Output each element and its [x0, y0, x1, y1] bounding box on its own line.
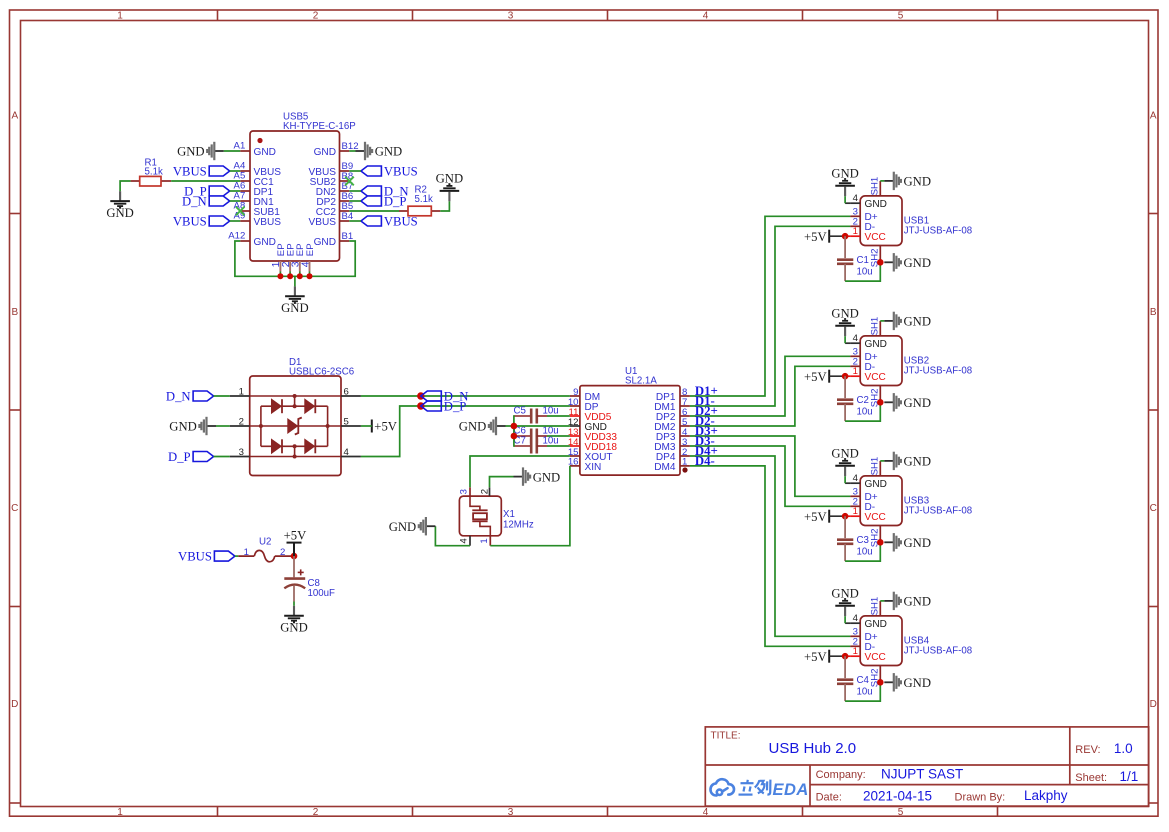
wire net D4- — [690, 466, 851, 646]
svg-text:D: D — [1150, 699, 1157, 710]
svg-text:EP: EP — [305, 243, 316, 256]
svg-text:USBLC6-2SC6: USBLC6-2SC6 — [289, 366, 354, 377]
gnd flag at SH1 USB3 — [884, 460, 894, 462]
svg-text:SH1: SH1 — [870, 317, 881, 336]
gnd flag at SH2 USB2 — [884, 401, 894, 403]
svg-text:GND: GND — [865, 199, 887, 210]
svg-text:GND: GND — [865, 479, 887, 490]
wire cap gnd bus vertical — [513, 415, 515, 447]
svg-text:EDA: EDA — [773, 781, 809, 799]
svg-text:XIN: XIN — [585, 462, 602, 473]
svg-text:1: 1 — [853, 226, 858, 237]
capacitor C4 10u — [844, 656, 846, 678]
port D_P at pin A6 — [209, 186, 230, 196]
wire SH1 to gnd USB2 — [880, 320, 884, 322]
svg-text:VBUS: VBUS — [309, 217, 337, 228]
junction VCC node USB4 — [842, 653, 849, 660]
svg-text:Date:: Date: — [816, 792, 842, 804]
wire B4 — [349, 220, 361, 222]
svg-text:3: 3 — [239, 447, 244, 458]
svg-text:1.0: 1.0 — [1114, 741, 1133, 756]
svg-text:12MHz: 12MHz — [503, 520, 534, 531]
svg-text:D_P: D_P — [168, 450, 191, 464]
capacitor C6 10u — [514, 435, 531, 437]
svg-text:4: 4 — [459, 538, 470, 544]
gnd flag at SH2 USB3 — [884, 541, 894, 543]
svg-text:+5V: +5V — [804, 230, 827, 244]
no-connect X at pin A8 — [236, 207, 245, 216]
svg-text:+5V: +5V — [374, 420, 397, 434]
capacitor C2 10u — [844, 376, 846, 398]
capacitor C3 10u — [844, 516, 846, 538]
svg-text:4: 4 — [300, 261, 311, 267]
LCEDA logo — [711, 779, 735, 795]
wire net D2+ — [690, 356, 851, 416]
wire A12/B1 to EP gnd bus — [235, 241, 355, 276]
svg-text:D: D — [11, 699, 18, 710]
svg-text:GND: GND — [831, 307, 859, 321]
gnd flag at pin A1 — [214, 150, 224, 152]
svg-text:5: 5 — [898, 807, 904, 818]
svg-text:1: 1 — [117, 807, 123, 818]
wire net D3+ — [690, 436, 851, 496]
junction cap bus at gnd — [511, 423, 518, 430]
junction VCC node USB1 — [842, 233, 849, 240]
wire +5V to VCC USB1 — [829, 235, 845, 237]
wire +5V to VCC USB4 — [829, 655, 845, 657]
wire R1 to CC1 pin A5 — [171, 180, 240, 182]
svg-text:GND: GND — [831, 447, 859, 461]
svg-text:GND: GND — [904, 315, 932, 329]
port D_P at pin B6 — [361, 196, 382, 206]
junction D_N — [417, 392, 424, 399]
port D_P at D1 pin 3 — [193, 452, 214, 462]
svg-text:C: C — [1150, 503, 1157, 514]
wire pin4 to gnd USB1 — [845, 202, 850, 204]
junction SH2 USB2 — [877, 399, 884, 406]
svg-text:GND: GND — [533, 470, 561, 484]
net label flag D_P — [421, 401, 442, 411]
port VBUS at U2 pin 1 — [214, 551, 235, 561]
power flag +5V at USB4 — [828, 650, 830, 663]
svg-text:10u: 10u — [857, 267, 873, 278]
wire C6 to VDD33 pin 13 — [547, 435, 570, 437]
gnd flag at SH1 USB1 — [884, 180, 894, 182]
svg-text:GND: GND — [254, 147, 276, 158]
port VBUS at pin B9 — [361, 166, 382, 176]
svg-text:GND: GND — [904, 676, 932, 690]
svg-text:D_P: D_P — [444, 399, 467, 413]
wire XOUT to crystal pin 3 — [470, 456, 570, 487]
svg-text:Company:: Company: — [816, 769, 866, 781]
svg-text:GND: GND — [280, 621, 308, 635]
svg-text:GND: GND — [865, 339, 887, 350]
no-connect X at pin B8 — [345, 177, 354, 186]
gnd flag at SH1 USB4 — [884, 600, 894, 602]
wire pin4 to gnd USB2 — [845, 342, 850, 344]
svg-text:D_N: D_N — [182, 194, 207, 208]
svg-text:JTJ-USB-AF-08: JTJ-USB-AF-08 — [904, 645, 972, 656]
ground earth below USB5 — [294, 286, 296, 295]
junction D_P — [417, 402, 424, 409]
junction +5V node — [291, 553, 298, 560]
wire C5 to VDD5 pin 11 — [547, 415, 570, 417]
port D_N at pin B7 — [361, 186, 382, 196]
svg-text:1: 1 — [682, 457, 687, 468]
power flag +5V above U2 — [293, 543, 295, 557]
svg-text:KH-TYPE-C-16P: KH-TYPE-C-16P — [283, 121, 356, 132]
svg-text:TITLE:: TITLE: — [711, 730, 741, 741]
power flag +5V at USB2 — [828, 370, 830, 383]
svg-text:C5: C5 — [514, 406, 526, 417]
svg-text:VBUS: VBUS — [173, 164, 207, 178]
svg-text:1/1: 1/1 — [1120, 769, 1139, 784]
svg-text:3: 3 — [508, 807, 514, 818]
svg-text:GND: GND — [436, 172, 464, 186]
svg-text:U2: U2 — [259, 536, 271, 547]
power flag +5V at USB3 — [828, 510, 830, 523]
svg-text:Drawn By:: Drawn By: — [955, 792, 1006, 804]
svg-text:A: A — [1150, 111, 1157, 122]
wire cap bottom to SH2 USB4 — [845, 682, 880, 701]
wire cap bottom to SH2 USB3 — [845, 542, 880, 561]
wire D1 pin5 to +5V — [361, 425, 372, 427]
svg-text:D_N: D_N — [166, 389, 191, 403]
wire VBUS to U2 — [235, 555, 238, 557]
svg-text:GND: GND — [904, 256, 932, 270]
junction EP3 — [297, 273, 303, 279]
svg-text:1: 1 — [117, 11, 123, 22]
+5V flag at D1 pin 5 — [371, 420, 373, 433]
svg-text:C1: C1 — [857, 255, 869, 266]
wire B12 — [349, 150, 355, 152]
wire B6 — [349, 200, 361, 202]
svg-text:C: C — [11, 503, 18, 514]
svg-text:VBUS: VBUS — [254, 217, 282, 228]
svg-text:3: 3 — [459, 489, 470, 494]
svg-text:2: 2 — [313, 807, 319, 818]
svg-text:2: 2 — [239, 417, 244, 428]
svg-text:10u: 10u — [857, 407, 873, 418]
wire D1 pin6 to U1 DM (net D_N) — [361, 395, 570, 397]
port VBUS at pin A4 — [209, 166, 230, 176]
svg-text:GND: GND — [106, 206, 134, 220]
svg-text:4: 4 — [703, 11, 709, 22]
wire A6 — [230, 190, 241, 192]
svg-text:D_P: D_P — [384, 194, 407, 208]
wire CC2 B5 to R2 — [349, 210, 399, 212]
wire SH1 to gnd USB3 — [880, 460, 884, 462]
junction cap bus at C6 — [511, 433, 518, 440]
wire B9 — [349, 170, 361, 172]
ground earth above USB2 — [844, 327, 846, 337]
svg-text:1: 1 — [853, 506, 858, 517]
port D_N at pin A7 — [209, 196, 230, 206]
wire R1 left to GND — [120, 181, 131, 191]
svg-text:REV:: REV: — [1075, 744, 1100, 756]
gnd flag at SH1 USB2 — [884, 320, 894, 322]
junction VCC node USB2 — [842, 373, 849, 380]
connector USB5 KH-TYPE-C-16P — [250, 131, 340, 261]
junction EP4 — [307, 273, 313, 279]
wire SH1 to gnd USB4 — [880, 600, 884, 602]
svg-text:GND: GND — [904, 175, 932, 189]
wire cap bottom to SH2 USB2 — [845, 402, 880, 421]
svg-text:5: 5 — [898, 11, 904, 22]
svg-text:4: 4 — [853, 193, 859, 204]
wire pin4 to gnd USB3 — [845, 482, 850, 484]
svg-text:+5V: +5V — [804, 650, 827, 664]
gnd flag at SH2 USB1 — [884, 261, 894, 263]
svg-text:1: 1 — [479, 538, 490, 543]
svg-text:SH1: SH1 — [870, 597, 881, 616]
svg-text:A1: A1 — [234, 141, 246, 152]
ground earth above USB4 — [844, 607, 846, 617]
svg-text:1: 1 — [239, 387, 244, 398]
svg-text:GND: GND — [831, 167, 859, 181]
svg-text:GND: GND — [389, 520, 417, 534]
wire D1 pin4 to U1 DP (net D_P) — [361, 406, 570, 457]
svg-text:NJUPT SAST: NJUPT SAST — [881, 766, 963, 781]
svg-text:2021-04-15: 2021-04-15 — [863, 788, 932, 803]
svg-text:10u: 10u — [543, 436, 559, 447]
svg-text:GND: GND — [281, 301, 309, 315]
junction EP2 — [287, 273, 293, 279]
svg-text:GND: GND — [314, 147, 336, 158]
svg-text:4: 4 — [853, 473, 859, 484]
wire C8 to gnd — [293, 602, 295, 606]
svg-text:100uF: 100uF — [308, 588, 336, 599]
gnd flag at D1 pin 2 — [207, 425, 217, 427]
svg-text:10u: 10u — [857, 547, 873, 558]
capacitor C8 100uF — [293, 556, 295, 577]
wire net D3- — [690, 446, 851, 506]
usb connector USB3 JTJ-USB-AF-08 — [860, 476, 902, 526]
svg-text:1: 1 — [853, 366, 858, 377]
svg-text:C2: C2 — [857, 395, 869, 406]
wire A7 — [230, 200, 241, 202]
wire D1 pin3 — [214, 456, 230, 458]
wire net D4+ — [690, 456, 851, 636]
svg-text:5.1k: 5.1k — [415, 194, 433, 205]
port VBUS at pin B4 — [361, 216, 382, 226]
svg-text:GND: GND — [375, 145, 403, 159]
wire gnd to pin 12 — [506, 425, 570, 427]
junction SH2 USB3 — [877, 539, 884, 546]
svg-text:GND: GND — [459, 420, 487, 434]
capacitor C1 10u — [844, 236, 846, 258]
wire R2 to GND — [440, 201, 449, 211]
svg-text:GND: GND — [904, 396, 932, 410]
svg-text:VCC: VCC — [865, 652, 886, 663]
port VBUS at pin A9 — [209, 216, 230, 226]
diode array D1 USBLC6-2SC6 — [250, 376, 341, 476]
svg-text:GND: GND — [904, 595, 932, 609]
svg-text:4: 4 — [853, 613, 859, 624]
wire +5V to VCC USB2 — [829, 375, 845, 377]
gnd flag at pin B12 — [356, 150, 366, 152]
svg-text:A: A — [11, 111, 18, 122]
usb connector USB4 JTJ-USB-AF-08 — [860, 616, 902, 666]
svg-text:5: 5 — [344, 417, 349, 428]
wire D1 pin1 — [214, 395, 230, 397]
svg-text:VCC: VCC — [865, 512, 886, 523]
svg-text:+5V: +5V — [804, 510, 827, 524]
svg-text:SL2.1A: SL2.1A — [625, 375, 657, 386]
svg-text:3: 3 — [508, 11, 514, 22]
junction SH2 USB4 — [877, 679, 884, 686]
wire crystal pin 4 to gnd — [435, 526, 470, 546]
capacitor C7 10u — [514, 445, 531, 447]
svg-text:GND: GND — [904, 455, 932, 469]
ground earth above USB1 — [844, 187, 846, 197]
svg-text:B: B — [1150, 307, 1157, 318]
ground earth at R1 — [119, 191, 121, 200]
svg-text:1: 1 — [853, 646, 858, 657]
svg-text:SH1: SH1 — [870, 177, 881, 196]
hub controller U1 SL2.1A — [580, 386, 680, 476]
wire C7 to VDD18 pin 14 — [547, 445, 570, 447]
svg-text:SH1: SH1 — [870, 457, 881, 476]
wire A1 — [224, 150, 240, 152]
gnd flag at SH2 USB4 — [884, 681, 894, 683]
wire +5V to VCC USB3 — [829, 515, 845, 517]
svg-text:4: 4 — [703, 807, 709, 818]
wire crystal pin 1 to XIN — [490, 466, 570, 546]
gnd flag right of crystal — [514, 476, 524, 478]
gnd flag left of crystal — [426, 525, 436, 527]
svg-text:VCC: VCC — [865, 232, 886, 243]
wire A9 — [230, 220, 241, 222]
svg-text:GND: GND — [831, 587, 859, 601]
svg-text:6: 6 — [344, 387, 349, 398]
svg-text:GND: GND — [177, 145, 205, 159]
ground earth at R2 — [448, 192, 450, 202]
wire EP bus to gnd — [294, 276, 296, 286]
wire net D1- — [690, 226, 851, 406]
svg-text:C4: C4 — [857, 675, 870, 686]
svg-text:Sheet:: Sheet: — [1075, 772, 1107, 784]
svg-text:VBUS: VBUS — [173, 214, 207, 228]
wire crystal pin 2 to gnd — [490, 477, 514, 488]
svg-text:4: 4 — [344, 447, 350, 458]
svg-text:USB Hub 2.0: USB Hub 2.0 — [769, 740, 857, 757]
svg-text:+5V: +5V — [804, 370, 827, 384]
svg-text:C3: C3 — [857, 535, 869, 546]
port D_N at D1 pin 1 — [193, 391, 214, 401]
svg-text:+5V: +5V — [284, 529, 307, 543]
svg-text:2: 2 — [313, 11, 319, 22]
title block — [705, 727, 1148, 806]
wire A4 — [230, 170, 241, 172]
svg-text:D4-: D4- — [695, 454, 715, 468]
svg-text:GND: GND — [314, 237, 336, 248]
wire SH1 to gnd USB1 — [880, 180, 884, 182]
ground earth below C8 — [293, 606, 295, 615]
svg-text:GND: GND — [904, 536, 932, 550]
wire pin4 to gnd USB4 — [845, 622, 850, 624]
wire net D2- — [690, 366, 851, 426]
svg-text:GND: GND — [254, 237, 276, 248]
svg-text:JTJ-USB-AF-08: JTJ-USB-AF-08 — [904, 365, 972, 376]
net label flag D_N — [421, 391, 442, 401]
wire D1 pin2 — [216, 425, 230, 427]
svg-text:X1: X1 — [503, 509, 515, 520]
usb connector USB2 JTJ-USB-AF-08 — [860, 336, 902, 386]
wire B7 — [349, 190, 361, 192]
gnd flag at U1 pin 12 — [496, 425, 506, 427]
crystal X1 12MHz — [459, 496, 501, 536]
svg-text:GND: GND — [169, 420, 197, 434]
svg-text:GND: GND — [865, 619, 887, 630]
svg-text:VBUS: VBUS — [178, 550, 212, 564]
svg-text:2: 2 — [479, 489, 490, 494]
power flag +5V at USB1 — [828, 230, 830, 243]
svg-text:DM4: DM4 — [654, 462, 676, 473]
junction SH2 USB1 — [877, 259, 884, 266]
ground earth above USB3 — [844, 467, 846, 477]
svg-text:VCC: VCC — [865, 372, 886, 383]
capacitor C5 10u — [514, 415, 531, 417]
svg-text:10u: 10u — [857, 687, 873, 698]
svg-text:VBUS: VBUS — [384, 164, 418, 178]
svg-text:A12: A12 — [228, 231, 245, 242]
wire net D1+ — [690, 216, 851, 396]
wire cap bottom to SH2 USB1 — [845, 262, 880, 281]
svg-text:4: 4 — [853, 333, 859, 344]
svg-text:Lakphy: Lakphy — [1024, 788, 1068, 803]
svg-text:JTJ-USB-AF-08: JTJ-USB-AF-08 — [904, 505, 972, 516]
svg-text:10u: 10u — [543, 406, 559, 417]
junction EP1 — [277, 273, 283, 279]
svg-text:JTJ-USB-AF-08: JTJ-USB-AF-08 — [904, 225, 972, 236]
svg-text:B: B — [11, 307, 18, 318]
usb connector USB1 JTJ-USB-AF-08 — [860, 196, 902, 246]
junction VCC node USB3 — [842, 513, 849, 520]
